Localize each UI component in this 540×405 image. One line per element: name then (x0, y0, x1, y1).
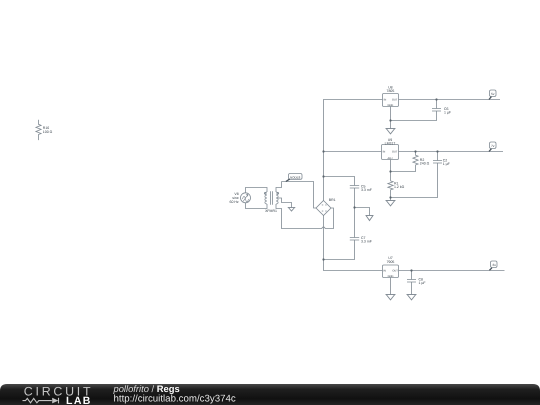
wire main positive bus (324, 100, 383, 201)
wire mid ground branch (355, 208, 370, 216)
regulator U7 7905 (383, 265, 399, 278)
ground (7805) (386, 129, 396, 134)
capacitor C6 (391, 100, 442, 121)
svg-text:GND: GND (388, 275, 394, 278)
svg-text:pollofrito / Regs: pollofrito / Regs (113, 383, 180, 394)
svg-text:3.3 mF: 3.3 mF (361, 188, 372, 192)
svg-text:5v: 5v (491, 92, 495, 96)
junction caps mid (353, 206, 355, 208)
junction negative-caps (322, 258, 324, 260)
svg-text:1 µF: 1 µF (444, 110, 451, 114)
svg-text:1 µF: 1 µF (419, 281, 426, 285)
svg-text:GND: GND (388, 104, 394, 107)
svg-text:OUT: OUT (392, 98, 398, 101)
wire secondary center tap (276, 198, 292, 208)
wire node line to bridge AC1 (282, 182, 317, 209)
wire 7905 gnd (390, 278, 392, 295)
svg-text:LM317: LM317 (385, 141, 396, 145)
junction 7905 out C8 (410, 269, 412, 271)
wire negative rail (324, 216, 383, 271)
svg-text:OUT: OUT (392, 270, 398, 273)
wire 7905 output rail (399, 270, 505, 272)
flag NODE8 (286, 174, 302, 182)
junction adj R2 (389, 170, 391, 172)
svg-text:XFMR1: XFMR1 (265, 209, 277, 213)
svg-text:7905: 7905 (387, 260, 395, 264)
capacitor C8 (407, 271, 416, 295)
svg-text:100 Ω: 100 Ω (43, 130, 53, 134)
svg-text:NODE8: NODE8 (290, 175, 301, 179)
svg-text:IN: IN (383, 270, 386, 273)
wire secondary bottom to bridge AC2 (276, 204, 334, 229)
svg-text:-5v: -5v (492, 263, 497, 267)
regulator U9 LM317 (382, 145, 399, 160)
wire primary loop top (246, 188, 268, 193)
resistor R16 (36, 120, 41, 140)
svg-text:LAB: LAB (66, 395, 92, 405)
svg-text:7805: 7805 (387, 89, 395, 93)
wire filter cap branch (324, 177, 355, 260)
logo resistor-diode (23, 398, 59, 404)
svg-text:60 Hz: 60 Hz (230, 200, 239, 204)
svg-text:240 Ω: 240 Ω (420, 161, 430, 165)
wire secondary top to node (276, 182, 282, 193)
junction 7805 out C6 (435, 98, 437, 100)
footer bar (0, 383, 540, 405)
svg-text:http://circuitlab.com/c3y374c: http://circuitlab.com/c3y374c (114, 394, 236, 405)
ground (C8) (407, 295, 417, 300)
junction bus-LM317 (322, 150, 324, 152)
junction LM317 out R2 (414, 150, 416, 152)
svg-text:1.2 kΩ: 1.2 kΩ (394, 185, 405, 189)
regulator U8 7805 (383, 94, 399, 107)
svg-text:ADJ: ADJ (388, 157, 394, 160)
svg-text:IN: IN (383, 150, 386, 153)
capacitor C7 (350, 238, 359, 241)
flag -5v (489, 261, 497, 270)
wire hop over negative rail (322, 227, 325, 228)
svg-text:IN: IN (384, 98, 387, 101)
wire 7805 output rail (399, 99, 501, 101)
junction bus-caps (322, 175, 324, 177)
resistor R2 (391, 152, 419, 172)
voltage source V8 (241, 193, 251, 203)
ground (filter mid) (366, 216, 374, 221)
transformer XFMR1 (264, 191, 278, 205)
svg-text:3.3 mF: 3.3 mF (361, 240, 372, 244)
flag 7v (489, 142, 496, 152)
junction LM317 out C2 (436, 150, 438, 152)
wire 7805 gnd (390, 107, 392, 129)
junction R1 C2 gnd (389, 196, 391, 198)
wire LM317 output rail (399, 151, 504, 153)
wire LM317 adj (390, 160, 392, 181)
wire primary loop bottom (246, 203, 268, 209)
ground (LM317) (386, 201, 396, 206)
svg-text:BR1: BR1 (329, 198, 336, 202)
junction 7805 gnd C6 (389, 119, 391, 121)
svg-text:7v: 7v (491, 144, 495, 148)
wire LM317 input (324, 151, 382, 153)
bridge rectifier BR1 (316, 201, 331, 216)
resistor R1 (388, 181, 393, 201)
capacitor C5 (350, 186, 359, 189)
capacitor C2 (391, 152, 443, 198)
ground (center tap) (288, 208, 296, 212)
svg-text:1 µF: 1 µF (443, 162, 450, 166)
ground (7905) (386, 295, 396, 300)
svg-text:OUT: OUT (392, 150, 398, 153)
flag 5v (489, 90, 496, 100)
